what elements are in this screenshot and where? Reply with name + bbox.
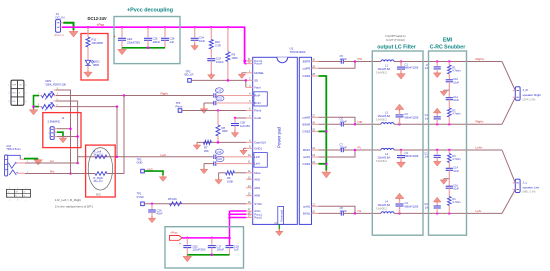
- junction: [217, 109, 220, 112]
- annotation: selection box LinP/LinN: [254, 153, 267, 168]
- capacitor C1 680nF/1206: [397, 62, 419, 73]
- wire: NC jack green: [57, 132, 63, 137]
- svg-text:LinN: LinN: [254, 162, 260, 166]
- svg-text:15uH/5.8A: 15uH/5.8A: [378, 203, 391, 207]
- svg-text:L4: L4: [385, 199, 388, 203]
- wire: R_Right to RinP riser: [107, 96, 124, 174]
- connector J10 2.5MM/NC: [48, 116, 65, 139]
- wire: GND4/GND3/GND2 green bus: [319, 76, 327, 171]
- ground (MidSEL): [238, 73, 245, 79]
- wire: DIP pin6 net: [56, 106, 117, 108]
- svg-text:Left-: Left-: [476, 209, 482, 213]
- svg-text:C24: C24: [199, 36, 204, 40]
- junction: [436, 60, 439, 63]
- wire: decoupling ground bus green: [122, 47, 165, 49]
- svg-text:SYNC: SYNC: [254, 202, 262, 206]
- svg-text:TRS-3.5mm: TRS-3.5mm: [6, 147, 21, 151]
- svg-text:4.7ohm: 4.7ohm: [452, 201, 460, 204]
- svg-text:680nF/1206: 680nF/1206: [405, 66, 419, 70]
- connector J_L speaker Left: [513, 179, 539, 194]
- resistor R3 4.7ohm: [448, 150, 461, 168]
- svg-text:220uF/35V: 220uF/35V: [193, 248, 206, 252]
- ground (Gain low side): [193, 142, 200, 149]
- capacitor C3 680nF/1206: [397, 150, 419, 161]
- U1 pin 14 AM1: [246, 185, 260, 190]
- ground (snubber mid): [440, 90, 447, 96]
- capacitor C12 10nF: [446, 90, 460, 108]
- svg-text:5.8A/0812: 5.8A/0812: [376, 207, 388, 210]
- ground (C15 up): [433, 197, 441, 203]
- annotation ellipse: [88, 148, 112, 190]
- svg-text:PL: PL: [358, 146, 362, 150]
- U1 pin 21 outNL: [303, 203, 319, 208]
- ground (C2 up): [395, 104, 404, 111]
- annotation box: +Pvcc local decoupling: [165, 227, 244, 268]
- junction on +Pwr bus: [147, 26, 150, 29]
- svg-text:c: c: [25, 199, 26, 201]
- capacitor C23 100nF: [207, 57, 224, 73]
- svg-text:g: g: [48, 133, 49, 135]
- capacitor C9 1nF: [425, 62, 441, 72]
- junction on +Pwr bus: [121, 26, 124, 29]
- wire: rail to LC: [355, 61, 381, 63]
- U1 pin 7 Gvdd: [246, 115, 261, 120]
- svg-text:a: a: [9, 199, 11, 201]
- junction: [245, 79, 248, 82]
- svg-text:TP4: TP4: [176, 101, 181, 105]
- wire: rail to snubber: [400, 212, 503, 214]
- inductor L2 15uH: [376, 110, 394, 124]
- ground (C13): [433, 160, 441, 166]
- U1 pin 26 BSNR: [303, 121, 319, 126]
- ground (power pad): [276, 229, 283, 236]
- svg-text:100K: 100K: [232, 56, 238, 60]
- junction: [354, 212, 357, 215]
- capacitor C4 680nF/1206 (up): [396, 200, 419, 214]
- wire: out to rail: [319, 117, 356, 124]
- junction: [69, 127, 72, 130]
- svg-text:1uF: 1uF: [170, 40, 175, 44]
- svg-text:RinP: RinP: [254, 94, 260, 98]
- svg-text:EMI: EMI: [443, 37, 453, 43]
- junction: [151, 203, 154, 206]
- svg-text:R10: R10: [215, 40, 220, 44]
- capacitor C16 10nF: [446, 179, 460, 197]
- capacitor C13 1nF: [424, 150, 440, 160]
- svg-text:/SD_LR: /SD_LR: [184, 73, 193, 77]
- capacitor C2 680nF/1206 (up): [396, 111, 419, 125]
- wire: SD to Fault link: [245, 80, 247, 87]
- svg-text:1.R_Left = R_Right: 1.R_Left = R_Right: [55, 198, 82, 202]
- junction on +Pwr bus: [193, 26, 196, 29]
- capacitor C24 10nF: [191, 27, 206, 43]
- U1 pin 29 outPR: [303, 65, 319, 70]
- svg-text:AM2: AM2: [254, 177, 260, 181]
- capacitor C14 10nF: [446, 167, 460, 179]
- svg-text:Power pad: Power pad: [277, 126, 282, 148]
- svg-text:Gain/SLV: Gain/SLV: [254, 141, 266, 145]
- junction: [436, 149, 439, 152]
- junction: [234, 117, 237, 120]
- svg-text:C20: C20: [157, 208, 162, 212]
- resistor R1 4.7ohm: [448, 62, 461, 80]
- svg-text:C17: C17: [217, 244, 222, 248]
- svg-text:4.7ohm: 4.7ohm: [452, 113, 460, 116]
- wire: LC out: [394, 212, 400, 214]
- svg-text:C19: C19: [217, 150, 222, 154]
- ground (NC jack): [59, 137, 67, 143]
- svg-text:CE1: CE1: [127, 37, 133, 41]
- junction: [354, 149, 357, 152]
- resistor R2 4.7ohm: [448, 108, 461, 124]
- resistor DIP1-A: [38, 88, 59, 100]
- capacitor CE1 220uF/35V: [114, 27, 141, 48]
- table: channel map: [6, 188, 30, 202]
- svg-text:MidSEL: MidSEL: [254, 71, 264, 75]
- svg-text:GND2: GND2: [303, 162, 311, 166]
- U1 pin 31 Pvcc3: [246, 58, 262, 63]
- wire: bottom decoupling ground green: [187, 254, 229, 256]
- svg-text:10nF: 10nF: [453, 188, 459, 191]
- svg-text:680nF/1206: 680nF/1206: [405, 115, 419, 119]
- resistor R11 20K: [86, 27, 104, 60]
- svg-text:Left+: Left+: [476, 145, 483, 149]
- svg-text:5: 5: [25, 93, 27, 95]
- svg-text:680nF/1206: 680nF/1206: [405, 204, 419, 208]
- annotation box: output LC filter: [372, 51, 423, 235]
- junction on +Pwr bus: [210, 26, 213, 29]
- svg-text:DC12-24V: DC12-24V: [88, 16, 107, 21]
- junction: [228, 237, 231, 240]
- wire: Lin: [25, 162, 78, 164]
- resistor R5 10K: [168, 197, 182, 206]
- capacitor CE2 220uF/35V: [179, 238, 206, 255]
- svg-text:C3: C3: [405, 151, 409, 155]
- svg-text:+Pvcc decoupling: +Pvcc decoupling: [127, 8, 173, 14]
- ground (decoupling): [118, 48, 127, 55]
- svg-text:100nF: 100nF: [217, 248, 225, 252]
- annotation box: +Pvcc decoupling: [114, 17, 180, 64]
- ground (LinN): [200, 167, 207, 174]
- svg-text:BSPR: BSPR: [303, 60, 311, 64]
- test point TP1 SYNC: [137, 192, 145, 206]
- wire: GND1 to ground: [244, 147, 247, 149]
- junction: [227, 79, 230, 82]
- junction: [325, 163, 328, 166]
- potentiometer DIP1: [46, 79, 67, 86]
- wire: snubber mid to ground: [444, 89, 450, 91]
- capacitor C11 1nF: [425, 114, 441, 124]
- svg-text:C28: C28: [240, 120, 245, 124]
- svg-text:5.8A/0812: 5.8A/0812: [376, 118, 388, 121]
- ground (C3): [397, 161, 406, 168]
- svg-text:on: on: [7, 192, 9, 194]
- wire: rail to snubber: [400, 123, 503, 125]
- svg-text:R8: R8: [222, 126, 226, 130]
- resistor DIP1-B: [38, 99, 59, 111]
- junction: [436, 123, 439, 126]
- wire: snubber mid to ground: [444, 178, 450, 180]
- svg-text:GND1: GND1: [254, 146, 262, 150]
- U1 pin 3 Fault: [246, 85, 260, 90]
- wire: out to rail: [319, 150, 356, 157]
- svg-text:DIP1: DIP1: [46, 79, 52, 83]
- U1 pin 10 LinP: [246, 154, 260, 159]
- junction: [448, 212, 451, 215]
- U1 pin 28 GND4: [303, 73, 319, 78]
- wire: DIP pin5 drop: [56, 101, 78, 163]
- wire: Gain/SLV net: [197, 141, 246, 143]
- U1 pin 24 BSPL: [303, 147, 318, 152]
- ground (Mute): [215, 177, 222, 184]
- wire: Plimit net: [182, 110, 247, 112]
- ground (jack sleeve): [34, 159, 42, 165]
- svg-text:L1: L1: [385, 64, 388, 68]
- svg-text:R6: R6: [227, 176, 231, 180]
- svg-text:100nF: 100nF: [153, 40, 161, 44]
- wire: jack sleeve green: [24, 158, 38, 160]
- svg-text:DC_IN: DC_IN: [56, 16, 65, 20]
- svg-text:5.8A/0812: 5.8A/0812: [376, 71, 388, 74]
- U1 pin 5 RinN: [246, 100, 260, 105]
- annotation box: power LED: [81, 34, 108, 81]
- U1 power pad pin 33: [274, 222, 279, 229]
- svg-text:TP2: TP2: [186, 69, 191, 73]
- wire: to speaker +: [502, 150, 515, 183]
- U1 pin 4 RinP: [246, 93, 260, 98]
- test point TP2 /SD_LR: [184, 69, 193, 82]
- svg-text:R: R: [19, 93, 21, 95]
- svg-text:+Pvcc: +Pvcc: [170, 231, 178, 235]
- svg-text:1: 1: [8, 84, 10, 86]
- U1 pin 9 GND1: [246, 145, 262, 150]
- svg-text:100nF: 100nF: [340, 57, 348, 61]
- svg-text:0805: 0805: [93, 63, 99, 67]
- ground (TP3): [159, 175, 166, 181]
- svg-text:AM0: AM0: [254, 194, 260, 198]
- wire: Lin riser: [77, 157, 79, 163]
- svg-text:3: 3: [8, 101, 10, 103]
- capacitor C20 47pF: [148, 204, 163, 216]
- svg-text:6: 6: [25, 101, 27, 103]
- ground (GND1): [240, 148, 247, 155]
- ground (output gnd): [322, 171, 331, 178]
- svg-text:Gvdd: Gvdd: [254, 116, 261, 120]
- svg-text:NL: NL: [358, 209, 362, 213]
- svg-text:+Pwr: +Pwr: [97, 23, 106, 27]
- test point TP3 GND: [137, 157, 153, 173]
- svg-text:GND3: GND3: [303, 130, 311, 134]
- svg-text:on: on: [23, 192, 25, 194]
- junction: [398, 123, 401, 126]
- U1 pin 2 SD: [246, 78, 258, 83]
- resistor R6 100K: [219, 171, 247, 184]
- wire: AVcc/Pvcc rails: [230, 211, 247, 246]
- svg-text:5.8A/0812: 5.8A/0812: [376, 160, 388, 163]
- ground (C4 up): [395, 193, 404, 200]
- svg-text:LinP: LinP: [254, 155, 260, 159]
- svg-text:+: +: [179, 241, 182, 246]
- junction: [211, 254, 214, 256]
- junction: [448, 149, 451, 152]
- junction: [211, 237, 214, 240]
- ground (C9): [433, 72, 441, 78]
- svg-text:R11: R11: [92, 37, 97, 41]
- LED LED1: [85, 60, 100, 71]
- svg-text:20K: 20K: [204, 149, 209, 153]
- ground (C24): [191, 44, 198, 51]
- U1 power pad section: [278, 207, 284, 225]
- capacitor C22b (LinN to gnd): [204, 156, 246, 167]
- resistor R7 20K: [203, 140, 211, 153]
- junction: [400, 60, 403, 63]
- capacitor C17 100nF: [208, 238, 225, 255]
- ground (C23): [208, 73, 215, 80]
- capacitor C5 100nF (bootstrap): [319, 54, 356, 64]
- svg-text:4.7ohm: 4.7ohm: [452, 70, 460, 73]
- test point TP4 Plimit: [176, 101, 183, 112]
- svg-text:CE2: CE2: [193, 244, 199, 248]
- U1 pin 12 Mute: [246, 170, 261, 175]
- junction: [228, 216, 231, 219]
- junction: [354, 60, 357, 63]
- wire: DIP pin6 drop to Left: [116, 107, 118, 157]
- junction on +Pwr bus: [227, 26, 230, 29]
- U1 pin 8 Gain/SLV: [246, 140, 266, 145]
- svg-text:15uH/5.8A: 15uH/5.8A: [378, 114, 391, 118]
- svg-text:2: 2: [8, 93, 10, 95]
- wire: SYNC net: [144, 203, 246, 205]
- svg-text:Power pad: Power pad: [281, 209, 284, 222]
- svg-text:Pvcc2: Pvcc2: [254, 216, 262, 220]
- svg-text:J1: J1: [62, 116, 65, 120]
- svg-text:ON: ON: [19, 84, 22, 86]
- annotation box: input series resistors: [86, 145, 116, 197]
- svg-text:RinN: RinN: [254, 101, 260, 105]
- inductor L1 15uH: [376, 60, 394, 74]
- resistor R9 100K: [226, 27, 238, 80]
- svg-text:PN: PN: [358, 57, 362, 61]
- junction: [436, 212, 439, 215]
- svg-text:R9: R9: [232, 53, 236, 57]
- svg-text:1nF: 1nF: [234, 248, 239, 252]
- svg-text:C1: C1: [405, 62, 409, 66]
- wire: LC out: [394, 149, 401, 151]
- inductor L3 15uH: [376, 148, 394, 162]
- svg-text:500K_R0970-10K: 500K_R0970-10K: [46, 82, 67, 86]
- ground (LED): [84, 71, 92, 78]
- svg-text:NR: NR: [358, 120, 363, 124]
- ground (DIP): [29, 109, 37, 115]
- ground (bottom decoupling): [183, 255, 192, 262]
- svg-text:(Pwr2.1): (Pwr2.1): [54, 33, 64, 37]
- junction: [354, 123, 357, 126]
- junction: [116, 105, 119, 108]
- svg-text:SD: SD: [254, 79, 258, 83]
- power flag +Pvcc: [170, 231, 182, 241]
- junction: [400, 149, 403, 152]
- junction: [32, 105, 35, 108]
- U1 pin 6 Plimit: [246, 108, 261, 113]
- wire: DIP pin4 to Right net: [56, 95, 58, 97]
- connector J4 DC_IN: [54, 12, 65, 37]
- U1 pin 15 AM0: [246, 193, 260, 198]
- svg-text:47pF: 47pF: [157, 212, 163, 216]
- wire: DIP common green: [34, 96, 40, 109]
- wire: out to rail: [319, 206, 356, 213]
- svg-text:speaker Right: speaker Right: [523, 93, 542, 97]
- svg-text:SYNC: SYNC: [137, 195, 145, 199]
- svg-text:100K: 100K: [227, 180, 233, 184]
- capacitor C19 (RinP coupling): [214, 88, 247, 98]
- svg-text:R5 10K: R5 10K: [168, 197, 177, 201]
- svg-text:100nF: 100nF: [340, 209, 348, 213]
- U1 pin 11 LinN: [246, 161, 260, 166]
- svg-text:C23: C23: [216, 57, 221, 61]
- svg-text:outNL: outNL: [303, 204, 311, 208]
- U1 pin 22 GND2: [303, 161, 319, 166]
- junction: [325, 130, 328, 133]
- svg-text:BSNR: BSNR: [303, 122, 311, 126]
- wire: bus to Pvcc3/Pvcc4: [245, 60, 247, 62]
- capacitor C10 10nF: [446, 78, 460, 90]
- svg-text:3: 3: [25, 188, 26, 190]
- ground (snubber mid): [440, 179, 447, 185]
- capacitor C19b (LinP coupling): [214, 149, 247, 159]
- wire: rail to snubber: [401, 61, 502, 63]
- wire: NC jack pin1 link: [57, 128, 71, 130]
- ground (DC input): [69, 30, 78, 37]
- wire: DIP pin3 drop: [56, 90, 71, 174]
- annotation box: NC jack: [43, 113, 81, 148]
- wire: +Pwr magenta bus: [62, 27, 245, 63]
- svg-text:J_R: J_R: [523, 88, 529, 92]
- ground (C28): [231, 131, 238, 138]
- U1 pin 13 AM2: [246, 176, 260, 181]
- svg-text:OFF: OFF: [12, 84, 17, 86]
- svg-text:C22: C22: [217, 97, 222, 101]
- capacitor C18 1nF: [226, 244, 240, 255]
- svg-text:10k: 10k: [12, 101, 15, 103]
- svg-text:GND4: GND4: [303, 74, 311, 78]
- wire: out to rail: [319, 62, 356, 69]
- svg-text:680nF/1206: 680nF/1206: [405, 154, 419, 158]
- svg-text:+: +: [114, 34, 117, 39]
- svg-text:TPA3116D2: TPA3116D2: [290, 50, 306, 54]
- svg-text:Right-: Right-: [476, 120, 484, 124]
- wire: Left input to LinP: [78, 156, 213, 158]
- wire: to speaker -: [502, 97, 515, 124]
- capacitor C15 1nF: [424, 203, 440, 213]
- svg-text:1: 1: [9, 188, 10, 190]
- svg-text:100K: 100K: [222, 129, 228, 133]
- inductor L4 15uH: [376, 199, 394, 213]
- svg-text:4.7ohm: 4.7ohm: [452, 158, 460, 161]
- svg-text:outNR: outNR: [302, 115, 310, 119]
- wire: Gvdd net: [235, 117, 246, 119]
- U1 pin 20 BSNL: [303, 211, 319, 216]
- ground (C11 up): [433, 108, 441, 114]
- svg-text:C26: C26: [170, 37, 175, 41]
- svg-text:Right: Right: [161, 92, 168, 96]
- wire: MidSEL to ground: [242, 72, 247, 74]
- wire: to speaker +: [502, 62, 515, 91]
- resistor R4 4.7ohm: [448, 197, 461, 214]
- svg-text:AU1: AU1: [6, 144, 12, 148]
- U1 pin 18 Pvcc1: [246, 211, 262, 216]
- svg-text:(MEL-2.54): (MEL-2.54): [523, 190, 536, 194]
- wire: NC jack pin3 link: [57, 136, 78, 138]
